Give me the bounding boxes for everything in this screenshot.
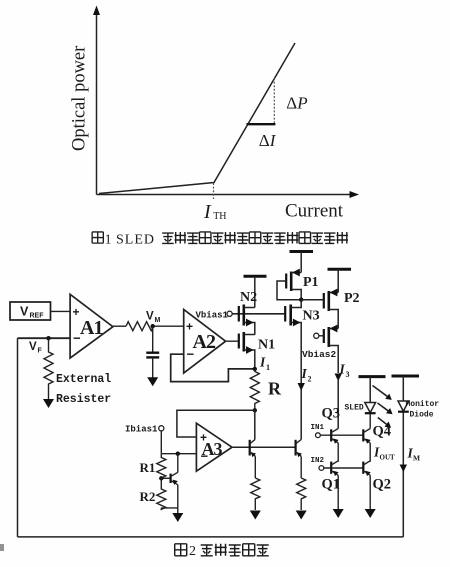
wire IN2 to Q1 Q2 bases: [324, 467, 364, 469]
light ray arrow 3: [378, 418, 391, 428]
wire mirror node to P2 gate: [301, 299, 324, 301]
y-axis: [93, 6, 100, 195]
transistor N1: [239, 332, 255, 369]
current arrow I3: [335, 374, 342, 382]
wire Ibias1 down: [160, 431, 162, 454]
supply rail above monitor diode: [392, 376, 420, 401]
caption figure 1: [92, 232, 348, 248]
bottom feedback wire: [18, 536, 404, 538]
ground below capacitor: [147, 377, 158, 386]
svg-text:M: M: [155, 317, 161, 324]
svg-text:+: +: [73, 305, 80, 319]
supply rail above N2: [244, 276, 267, 307]
svg-text:M: M: [413, 454, 420, 463]
svg-text:3: 3: [346, 370, 350, 379]
SLED diode: [365, 403, 376, 414]
svg-text:N2: N2: [240, 290, 257, 305]
threshold dotted line: [213, 183, 215, 199]
svg-text:Current: Current: [285, 200, 344, 221]
svg-text:R2: R2: [140, 489, 156, 504]
wire to A2+: [152, 325, 184, 327]
node VM: [151, 324, 155, 328]
supply rail above P2: [328, 269, 352, 292]
transistor Q5 bias bjt: [161, 454, 178, 508]
wire A1 output: [113, 325, 126, 327]
Vref source box: [10, 302, 51, 320]
node R1 bottom: [159, 476, 163, 480]
svg-text:Vbias1: Vbias1: [196, 311, 229, 321]
resistor R1: [157, 454, 166, 479]
current arrow IM: [400, 465, 407, 473]
op-amp A2: [184, 309, 226, 373]
svg-text:N3: N3: [303, 309, 320, 324]
svg-text:1: 1: [266, 363, 270, 372]
op-amp A3: [196, 423, 232, 471]
node on Ibias wire: [176, 452, 180, 456]
terminal circle Ibias1: [159, 426, 164, 431]
emitter resistor of B2: [297, 478, 306, 510]
current arrow I2: [298, 383, 305, 391]
svg-text:Ibias1: Ibias1: [125, 425, 158, 435]
svg-text:Optical power: Optical power: [70, 46, 90, 151]
svg-text:Q2: Q2: [373, 477, 392, 493]
op-amp A1: [70, 294, 113, 358]
svg-text:A3: A3: [202, 439, 223, 459]
svg-text:N1: N1: [258, 338, 275, 353]
wire R bottom to B1 collector: [254, 410, 256, 439]
ground below external resistor: [43, 398, 54, 409]
light ray arrow 2: [378, 403, 393, 414]
capacitor to ground: [146, 326, 159, 378]
svg-text:I: I: [301, 366, 308, 381]
transistor Q3: [331, 429, 338, 462]
resistor R: [250, 369, 259, 410]
transistor P1: [286, 269, 301, 300]
scan smudge left edge: [0, 544, 4, 551]
svg-text:1: 1: [105, 232, 112, 247]
transistor B2: [296, 440, 302, 479]
ground below Q2: [365, 509, 376, 518]
wire Vref to A1+: [51, 310, 71, 312]
wire A2 output to N1 gate: [226, 340, 239, 342]
ground below B1: [250, 511, 261, 520]
resistor R2: [157, 478, 166, 509]
wire Vbias1 to N2/N3 gates: [232, 313, 285, 315]
svg-text:Vbias2: Vbias2: [302, 349, 337, 360]
x-axis: [97, 191, 360, 198]
transistor Q1: [331, 461, 338, 510]
transistor Q2: [363, 461, 370, 510]
node VF: [46, 336, 50, 340]
svg-text:V: V: [146, 311, 154, 323]
ground below B2: [296, 511, 307, 520]
transistor Q4: [363, 413, 370, 461]
wire I3 down to Q3: [337, 378, 339, 429]
terminal circle IN1: [316, 433, 321, 438]
wire R2 bottom to emitter: [161, 507, 178, 509]
svg-text:Monitor: Monitor: [406, 400, 440, 409]
transistor N3: [285, 300, 301, 440]
node at R bottom: [253, 408, 257, 412]
delta P dotted vertical: [273, 78, 275, 124]
emitter resistor of B1: [251, 478, 260, 510]
svg-text:P1: P1: [303, 275, 319, 290]
A3 feedback wire from R bottom: [177, 410, 255, 437]
supply rail above SLED: [359, 377, 386, 403]
wire monitor diode down: [402, 412, 404, 537]
svg-text:OUT: OUT: [380, 454, 396, 462]
light ray arrow 1: [373, 386, 392, 400]
svg-text:REF: REF: [30, 313, 45, 320]
svg-text:Q1: Q1: [322, 477, 341, 493]
svg-text:P2: P2: [344, 291, 360, 306]
wire A3 output to B1 B2 bases: [232, 446, 296, 448]
transistor B1: [250, 440, 256, 479]
transistor N2: [239, 305, 255, 335]
monitor photodiode: [398, 401, 409, 412]
svg-text:Resister: Resister: [56, 393, 111, 406]
ground below bias branch: [172, 508, 183, 522]
transfer curve: [99, 43, 295, 194]
svg-text:R: R: [268, 379, 282, 399]
wire Vbias2 circle to gate: [319, 335, 324, 337]
delta I horizontal segment: [247, 123, 276, 125]
svg-text:IN1: IN1: [311, 424, 325, 432]
wire IN1 to Q3 Q4 bases: [320, 434, 363, 436]
cascode transistor (Vbias2): [324, 325, 338, 373]
wire A1 inverting input: [18, 337, 71, 339]
transistor P2: [324, 289, 338, 329]
A2 feedback wire: [171, 354, 255, 381]
node at R top: [253, 367, 257, 371]
svg-text:F: F: [38, 348, 43, 355]
supply rail above P1: [290, 252, 314, 273]
P1 gate loop: [277, 281, 301, 300]
svg-text:R1: R1: [140, 460, 156, 475]
svg-text:Q3: Q3: [322, 406, 341, 422]
svg-text:IN2: IN2: [311, 457, 325, 465]
caption figure 2: [175, 544, 269, 559]
svg-text:V: V: [20, 305, 29, 319]
terminal circle Vbias2: [314, 333, 319, 338]
svg-text:V: V: [29, 341, 37, 353]
node P1 drain: [299, 298, 303, 302]
svg-text:2: 2: [189, 544, 196, 559]
svg-text:2: 2: [308, 375, 312, 384]
svg-text:Diode: Diode: [410, 411, 434, 420]
feedback wire left side: [17, 338, 19, 537]
svg-text:A1: A1: [80, 317, 102, 339]
svg-text:ΔI: ΔI: [259, 131, 277, 150]
svg-text:External: External: [56, 373, 111, 386]
external resistor: [44, 338, 53, 397]
svg-text:I: I: [259, 355, 266, 370]
wire Ibias node to A3 inverting input: [161, 453, 196, 455]
series resistor after A1: [126, 322, 155, 331]
svg-text:ΔP: ΔP: [286, 93, 307, 112]
svg-text:SLED: SLED: [345, 404, 364, 413]
terminal circle IN2: [319, 466, 324, 471]
svg-text:TH: TH: [213, 211, 226, 222]
ground below Q1: [333, 509, 344, 518]
svg-text:A2: A2: [193, 331, 216, 353]
terminal circle Vbias1: [227, 311, 232, 316]
svg-text:SLED: SLED: [116, 233, 155, 248]
svg-text:I: I: [203, 201, 212, 223]
